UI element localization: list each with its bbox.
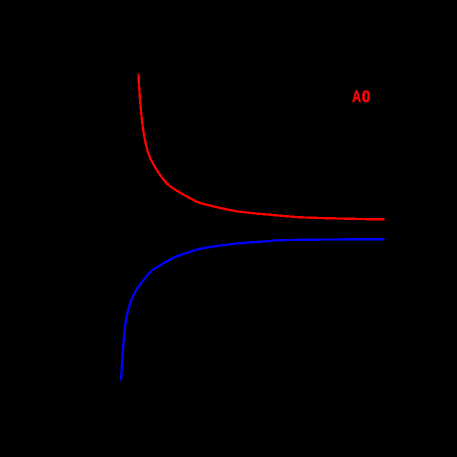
blue curve (lower limit) [121,239,384,380]
red curve (upper limit) [139,74,385,220]
svg-text:A: A [352,88,361,106]
svg-text:0: 0 [362,87,371,105]
